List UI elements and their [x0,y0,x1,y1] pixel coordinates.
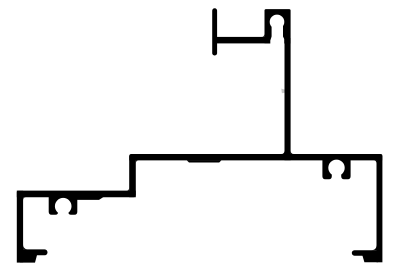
top vertical stub fin [212,8,217,55]
top keyhole slot cut [272,25,283,38]
wall-to-bar fillet left [281,151,284,154]
main vertical wall [285,38,291,160]
top screw-boss block [265,9,291,43]
left step connector [129,154,136,197]
top keyhole slot lower opening cut [270,37,284,50]
top keyhole circle cut [270,15,285,30]
right vertical wall [377,156,383,262]
faint serration mark on wall [281,89,284,94]
left screw boss body [49,194,78,215]
right foot bar [352,250,379,256]
left foot bar [20,249,48,255]
fillet step to mid-bar [136,160,139,163]
left boss keyhole circle cut [55,198,72,215]
fillet top-bar to block [261,34,264,37]
right boss keyhole circle cut [328,160,344,176]
left vertical wall [17,191,23,263]
fillet mid-bar to right-wall [374,160,377,163]
glazing pad under middle bar [187,160,222,162]
top horizontal flange bar [215,37,271,44]
fillet step to left-bar [126,188,129,191]
left foot wedge [20,254,37,262]
right middle screw boss body [322,158,350,179]
left horizontal bar [17,191,136,198]
fillet left-bar to left-wall [23,197,26,200]
right foot fillet [371,245,376,250]
middle horizontal bar [129,154,382,160]
left foot fillet [23,244,28,249]
right foot wedge [362,255,378,262]
rib under left bar [72,197,104,200]
wall-to-bar fillet right [291,151,294,154]
